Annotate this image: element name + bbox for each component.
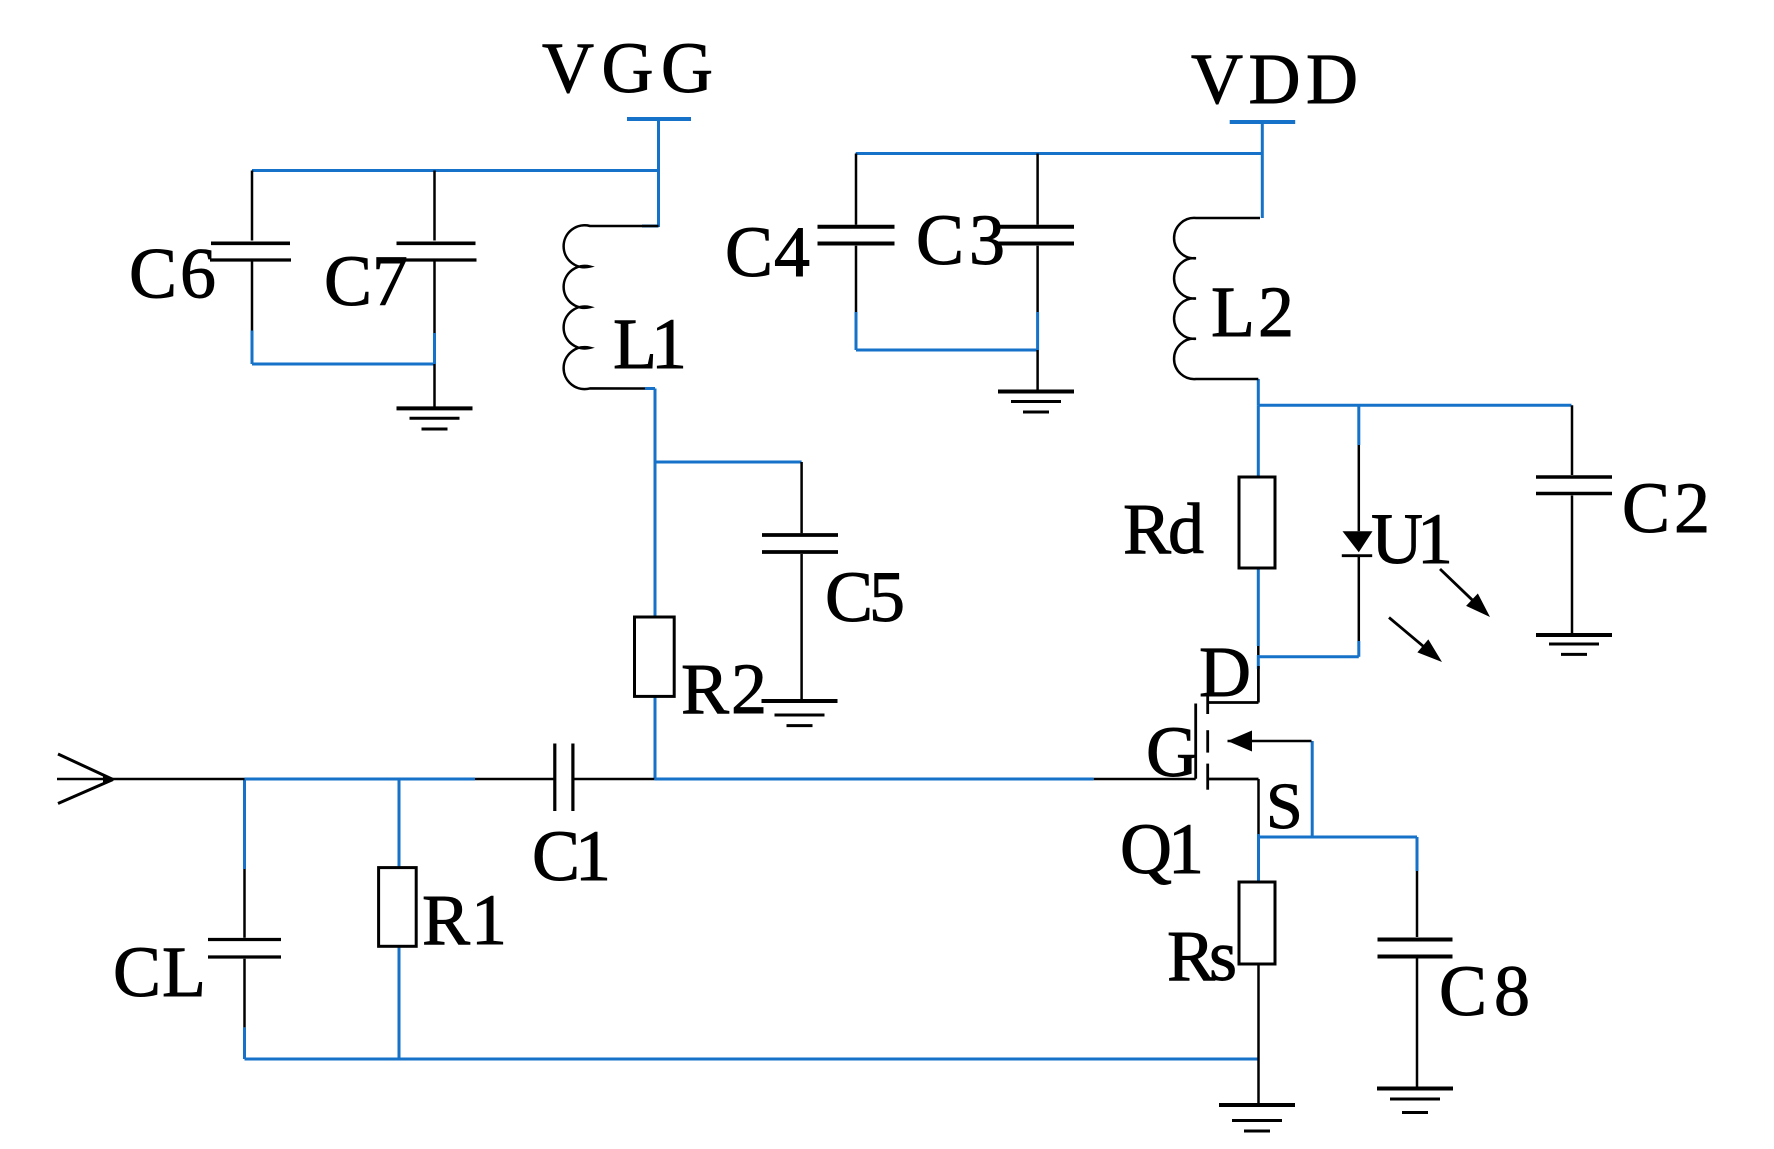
svg-text:S: S xyxy=(1266,770,1303,843)
svg-text:Rd: Rd xyxy=(1123,489,1204,569)
svg-text:C2: C2 xyxy=(1622,468,1710,548)
svg-text:U1: U1 xyxy=(1371,499,1453,579)
svg-text:VGG: VGG xyxy=(542,28,713,108)
svg-text:R1: R1 xyxy=(422,880,507,960)
svg-text:C4: C4 xyxy=(725,212,810,292)
svg-text:VDD: VDD xyxy=(1191,39,1358,119)
svg-text:C6: C6 xyxy=(129,234,216,314)
svg-text:R2: R2 xyxy=(681,649,767,729)
svg-text:C8: C8 xyxy=(1439,951,1530,1031)
svg-text:L2: L2 xyxy=(1211,272,1294,352)
svg-text:CL: CL xyxy=(113,932,206,1012)
svg-text:Rs: Rs xyxy=(1167,916,1237,996)
svg-text:G: G xyxy=(1146,712,1198,792)
svg-text:Q1: Q1 xyxy=(1120,809,1204,889)
svg-text:L1: L1 xyxy=(613,304,687,384)
svg-text:C1: C1 xyxy=(532,816,611,896)
svg-text:C3: C3 xyxy=(916,200,1005,280)
svg-text:C5: C5 xyxy=(825,557,905,637)
svg-text:D: D xyxy=(1199,632,1251,712)
svg-text:C7: C7 xyxy=(324,241,408,321)
